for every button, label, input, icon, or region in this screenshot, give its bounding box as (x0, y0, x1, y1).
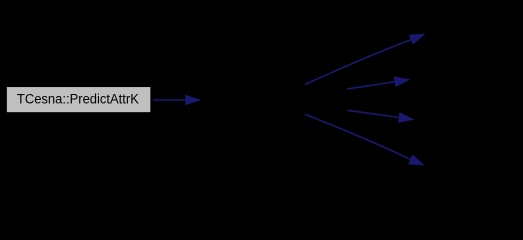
edge A: hidden middle node to hidden top-right node (wire) (305, 40, 411, 85)
edge C: hidden node to hidden lower-right node (wire) (347, 110, 400, 117)
arrowhead of edge B (394, 77, 411, 88)
svg-text:TCesna::PredictAttrK: TCesna::PredictAttrK (17, 92, 139, 108)
arrowhead of edge D (408, 154, 425, 165)
edge B: hidden node to hidden upper-right node (wire) (347, 82, 395, 89)
edge E1: TCesna::PredictAttrK to hidden middle node (wire) (153, 99, 187, 101)
node box TCesna::PredictAttrK (6, 87, 151, 113)
node label TCesna::PredictAttrK (17, 92, 139, 108)
arrowhead of edge E1 (185, 95, 201, 106)
arrowhead of edge C (398, 112, 415, 123)
arrowhead of edge A (409, 34, 426, 45)
edge D: hidden middle node to hidden bottom-right node (wire) (305, 114, 411, 160)
